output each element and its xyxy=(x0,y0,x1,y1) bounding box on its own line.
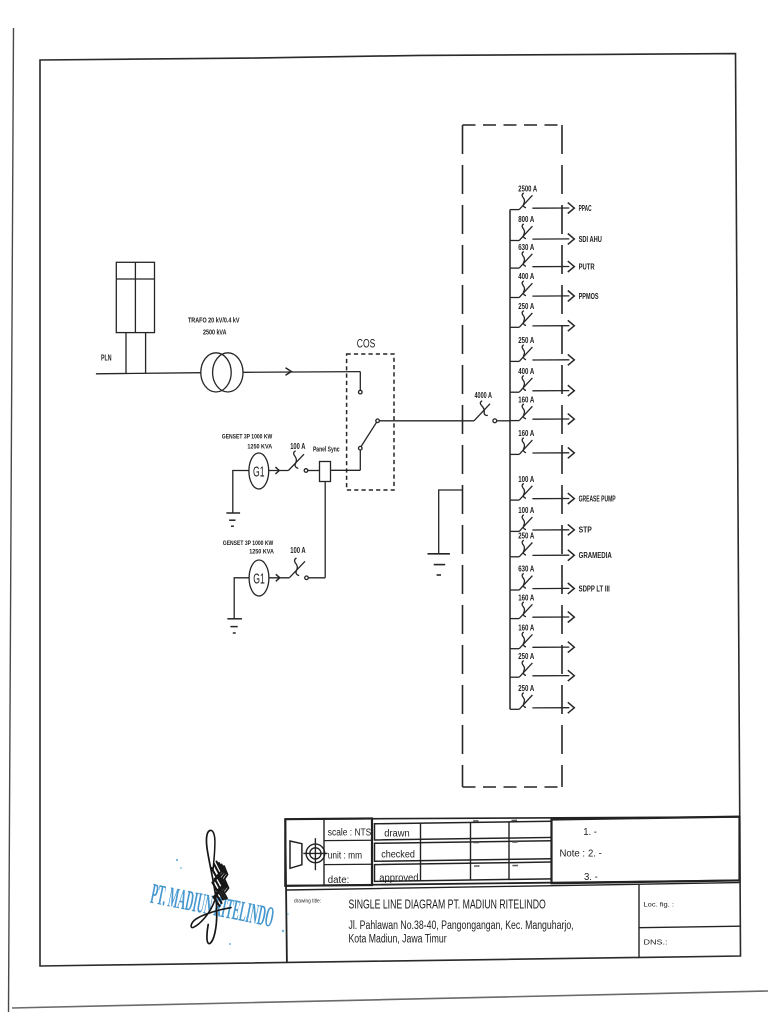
svg-text:Kota Madiun, Jawa Timur: Kota Madiun, Jawa Timur xyxy=(349,934,447,946)
svg-text:100 A: 100 A xyxy=(290,442,305,451)
arrow on genset2 wire xyxy=(276,574,280,581)
row1 bottom line xyxy=(285,880,739,885)
feeder breaker 2500 A (branch 1) xyxy=(510,193,532,210)
wire PLN incoming line xyxy=(96,373,201,374)
row1 top line xyxy=(285,817,739,819)
svg-text:COS: COS xyxy=(357,339,376,351)
projection symbol cone xyxy=(290,841,302,868)
row2 right column divider xyxy=(638,884,640,957)
svg-text:4000 A: 4000 A xyxy=(475,391,493,400)
wire to panel sync xyxy=(308,470,320,472)
wire feeder 4 with arrow xyxy=(532,291,574,302)
title block xyxy=(285,817,740,963)
svg-text:630 A: 630 A xyxy=(518,243,534,252)
wire feeder 7 with arrow xyxy=(532,385,574,396)
row2 top line xyxy=(287,883,740,890)
svg-text:GREASE PUMP: GREASE PUMP xyxy=(579,494,616,503)
ground (panel) xyxy=(428,554,450,575)
wire feeder 8 with arrow xyxy=(532,414,574,425)
svg-text:Loc. fig. :: Loc. fig. : xyxy=(644,902,675,909)
svg-text:PUTR: PUTR xyxy=(579,262,595,271)
svg-text:100 A: 100 A xyxy=(518,506,534,515)
svg-text:3. -: 3. - xyxy=(584,871,598,883)
wire feeder 6 with arrow xyxy=(532,354,574,365)
wire main breaker to busbar xyxy=(497,420,510,422)
svg-text:1. -: 1. - xyxy=(583,826,597,838)
Loc/DNS divider xyxy=(639,926,740,928)
wire transformer to COS xyxy=(243,371,360,374)
feeder breaker 400 A (branch 4) xyxy=(510,281,532,298)
genset2 breaker terminal xyxy=(305,576,309,580)
wire feeder 14 with arrow xyxy=(532,612,574,623)
svg-text:800 A: 800 A xyxy=(518,215,534,224)
wire feeder 15 with arrow xyxy=(532,642,574,653)
busbar xyxy=(509,210,511,710)
genset G1 (upper) value label xyxy=(222,434,273,451)
feeder breaker 800 A (branch 2) xyxy=(510,224,532,241)
COS top contact xyxy=(359,390,363,394)
feeder breaker 250 A (branch 5) xyxy=(510,311,532,328)
svg-text:GENSET 3P 1000 KW: GENSET 3P 1000 KW xyxy=(223,540,274,547)
feeder breaker 160 A (branch 8) xyxy=(510,404,532,421)
svg-text:PPMOS: PPMOS xyxy=(579,292,599,301)
svg-text:160 A: 160 A xyxy=(518,623,534,632)
stamp speckles xyxy=(171,859,289,945)
feeder breaker 250 A (branch 6) xyxy=(510,345,532,362)
feeder breaker 250 A (branch 12) xyxy=(510,540,532,557)
panel enclosure dashed box xyxy=(463,125,563,787)
drawn/checked/approved table xyxy=(375,821,552,881)
svg-text:scale : NTS: scale : NTS xyxy=(328,828,372,839)
COS output contact xyxy=(376,419,380,423)
feeder breaker 630 A (branch 13) xyxy=(510,573,532,590)
svg-text:STP: STP xyxy=(579,526,593,535)
wire feeder 17 with arrow xyxy=(532,702,574,713)
wire COS lower contact down xyxy=(359,450,361,470)
genset G1 (lower) value label xyxy=(223,540,274,556)
panel sync box xyxy=(320,462,331,482)
svg-text:250 A: 250 A xyxy=(518,302,534,311)
svg-text:SDPP LT III: SDPP LT III xyxy=(579,584,610,593)
company stamp PT. MADIUN RITELINDO xyxy=(148,878,276,934)
svg-text:TRAFO 20 kV/0.4 kV: TRAFO 20 kV/0.4 kV xyxy=(188,318,240,325)
svg-text:250 A: 250 A xyxy=(518,684,534,693)
wire down into COS top contact xyxy=(359,372,361,391)
signature scribble xyxy=(191,830,231,943)
wire feeder 9 with arrow xyxy=(532,447,574,458)
svg-text:2500 kVA: 2500 kVA xyxy=(203,330,227,337)
wire cubicle left leg xyxy=(125,333,127,374)
wire feeder 11 with arrow xyxy=(532,524,574,535)
PLN incoming cubicle xyxy=(116,262,154,332)
wire COS output to main breaker xyxy=(379,420,474,422)
feeder breaker 100 A (branch 10) xyxy=(510,484,532,501)
svg-text:250 A: 250 A xyxy=(518,532,534,541)
genset1 breaker terminal xyxy=(304,469,308,473)
wire genset1 output xyxy=(269,470,289,472)
feeder breaker 400 A (branch 7) xyxy=(510,376,532,393)
feeder breaker 630 A (branch 3) xyxy=(510,252,532,269)
wire genset1 left xyxy=(233,471,249,514)
wire feeder 3 with arrow xyxy=(532,261,574,272)
note box xyxy=(552,817,740,884)
svg-text:2500 A: 2500 A xyxy=(518,184,537,193)
svg-text:Panel Sync: Panel Sync xyxy=(313,446,340,453)
svg-text:630 A: 630 A xyxy=(518,565,534,574)
arrow on PLN wire xyxy=(286,368,292,375)
svg-text:160 A: 160 A xyxy=(518,395,534,404)
wire genset2 output xyxy=(269,577,290,579)
wire genset2 to junction xyxy=(308,577,325,579)
genset G1 (upper) xyxy=(249,453,269,489)
svg-text:SDI AHU: SDI AHU xyxy=(579,235,602,244)
wire feeder 16 with arrow xyxy=(532,670,574,681)
feeder breaker 160 A (branch 9) xyxy=(510,438,532,455)
left edge xyxy=(285,819,287,962)
value label TRAFO 20 kV/0.4 kV 2500 kVA xyxy=(188,318,240,337)
svg-text:SINGLE LINE DIAGRAM PT. MADIUN: SINGLE LINE DIAGRAM PT. MADIUN RITELINDO xyxy=(349,897,546,912)
svg-text:100 A: 100 A xyxy=(518,475,534,484)
svg-text:Jl. Pahlawan No.38-40, Pangong: Jl. Pahlawan No.38-40, Pangongangan, Kec… xyxy=(349,920,574,932)
svg-text:G1: G1 xyxy=(253,464,265,480)
genset G1 (lower) xyxy=(249,560,269,596)
breaker 100 A (genset 1) xyxy=(288,451,304,471)
svg-text:G1: G1 xyxy=(253,571,265,587)
arrow on genset1 wire xyxy=(275,467,279,474)
svg-text:250 A: 250 A xyxy=(518,652,534,661)
wire feeder 13 with arrow xyxy=(532,583,574,594)
wire feeder 1 with arrow xyxy=(532,203,574,214)
smudge marks in cells xyxy=(473,820,518,866)
scan artifact left paper edge xyxy=(9,28,14,1012)
wire feeder 2 with arrow xyxy=(532,234,574,245)
svg-text:checked: checked xyxy=(381,849,415,860)
feeder breaker 250 A (branch 16) xyxy=(510,661,532,678)
feeder breaker 160 A (branch 14) xyxy=(510,602,532,619)
feeder breaker 250 A (branch 17) xyxy=(510,693,532,710)
ground (genset 1) xyxy=(226,513,240,526)
breaker 100 A (genset 2) xyxy=(289,558,305,578)
changeover switch COS dashed box xyxy=(347,354,394,490)
svg-text:400 A: 400 A xyxy=(518,272,534,281)
svg-text:date:: date: xyxy=(328,875,350,886)
wire COS to panel sync xyxy=(331,469,361,471)
svg-text:Note :: Note : xyxy=(560,848,586,860)
svg-text:GENSET 3P 1000 KW: GENSET 3P 1000 KW xyxy=(222,434,273,441)
title block texts xyxy=(294,826,674,946)
svg-text:PPAC: PPAC xyxy=(579,204,592,213)
feeder breaker 100 A (branch 11) xyxy=(510,515,532,532)
scan artifact bottom paper edge xyxy=(12,991,768,1008)
svg-text:100 A: 100 A xyxy=(290,546,306,555)
ground (panel) wire xyxy=(439,490,463,554)
svg-text:DNS.:: DNS.: xyxy=(644,938,668,947)
svg-text:1250 KVA: 1250 KVA xyxy=(249,549,274,556)
COS lower contact xyxy=(359,446,363,450)
svg-text:unit : mm: unit : mm xyxy=(328,851,362,862)
svg-text:PLN: PLN xyxy=(101,354,112,363)
projection symbol target xyxy=(303,838,327,870)
projection+scale thick box xyxy=(285,818,372,885)
wire feeder 12 with arrow xyxy=(532,550,574,561)
svg-text:approved: approved xyxy=(379,873,418,884)
wire cubicle right leg xyxy=(145,333,147,374)
svg-text:drawn: drawn xyxy=(384,828,410,839)
feeder breaker 160 A (branch 15) xyxy=(510,632,532,649)
wire feeder 5 with arrow xyxy=(532,320,574,331)
svg-text:2. -: 2. - xyxy=(588,848,602,860)
svg-text:250 A: 250 A xyxy=(518,336,534,345)
wire panel sync down to genset2 line xyxy=(324,482,326,578)
ground (genset 2) xyxy=(227,619,242,633)
wire genset2 left xyxy=(234,578,249,619)
svg-text:400 A: 400 A xyxy=(518,367,534,376)
wire feeder 10 with arrow xyxy=(532,493,574,504)
transformer T1 TRAFO 20 kV/0.4 kV 2500 kVA xyxy=(201,353,243,392)
svg-text:160 A: 160 A xyxy=(518,429,534,438)
svg-text:160 A: 160 A xyxy=(518,593,534,602)
svg-text:drawing title:: drawing title: xyxy=(294,899,321,905)
svg-text:GRAMEDIA: GRAMEDIA xyxy=(579,551,612,560)
main breaker terminal xyxy=(493,419,497,423)
main breaker 4000 A xyxy=(474,401,490,421)
svg-text:1250 KVA: 1250 KVA xyxy=(247,443,272,450)
COS moving blade xyxy=(361,422,377,446)
